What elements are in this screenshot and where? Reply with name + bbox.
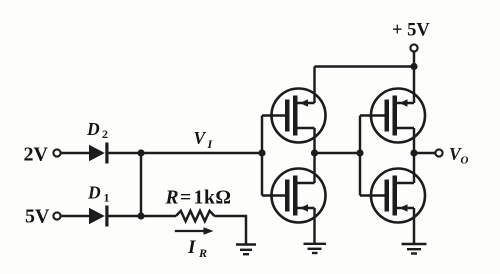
wire Q4 source to ground (413, 208, 415, 244)
node output 1 dot (311, 149, 318, 156)
current arrow IR (175, 227, 214, 235)
wire Q2 source to ground (313, 208, 315, 244)
transistor Q3 (PMOS, right) (371, 89, 425, 143)
transistor Q4 (NMOS, right) (371, 169, 425, 223)
wire 5V terminal to D1 anode (61, 215, 90, 217)
wire gate lead Q3 (360, 114, 387, 116)
svg-text:R=1kΩ: R=1kΩ (165, 188, 232, 209)
wire VDD rail down to Q1 source (313, 67, 315, 104)
wire D2 cathode to node A (109, 152, 142, 154)
ground (Q4 source) (402, 244, 427, 254)
svg-text:1: 1 (104, 191, 110, 205)
terminal VO output (435, 149, 442, 156)
gate bus 2 vertical (output 1 to gates of Q3,Q4) (359, 116, 361, 196)
wire gate lead Q1 (262, 114, 287, 116)
svg-text:R: R (198, 246, 207, 260)
svg-text:D: D (86, 119, 100, 139)
svg-text:O: O (461, 155, 469, 167)
resistor R1 zigzag (176, 211, 214, 221)
wire Q3 drain to output node 2 (413, 128, 415, 183)
wire gate lead Q2 (262, 194, 287, 196)
node A junction dot (diode D2 / VI) (137, 149, 144, 156)
label IR (187, 237, 207, 260)
wire 2V terminal to D2 anode (61, 152, 90, 154)
svg-text:2V: 2V (24, 144, 49, 166)
wire VDD rail horizontal (315, 65, 415, 67)
svg-text:V: V (194, 128, 207, 148)
label VI (194, 128, 214, 151)
ground (Q2 source) (304, 244, 327, 253)
wire output 2 to VO terminal (414, 152, 435, 154)
node B junction dot (diode D1 / resistor) (137, 212, 144, 219)
diode D1 (89, 206, 109, 227)
diode D2 (89, 143, 109, 164)
wire VI (node A to gate bus 1) (141, 152, 262, 154)
wire Q1 drain to output node 1 (313, 128, 315, 183)
svg-text:D: D (87, 183, 101, 203)
wire +5V terminal down to VDD node (413, 52, 415, 103)
node VDD junction dot (410, 63, 417, 70)
gate bus 1 vertical (VI to gates of Q1,Q2) (261, 116, 263, 196)
wire D1 cathode to node B (109, 215, 177, 217)
terminal 5V input (53, 212, 60, 219)
wire gate lead Q4 (360, 194, 387, 196)
transistor Q1 (PMOS, left) (272, 89, 326, 143)
svg-text:2: 2 (102, 127, 108, 141)
terminal 2V input (53, 149, 60, 156)
node gate bus 1 dot (258, 149, 265, 156)
node gate bus 2 dot (356, 149, 363, 156)
label D2 (86, 119, 108, 141)
svg-text:5V: 5V (25, 206, 50, 228)
terminal +5V supply (410, 44, 417, 51)
wire resistor to ground drop (214, 216, 246, 244)
label VO (449, 144, 469, 167)
ground (resistor) (236, 245, 256, 255)
svg-text:I: I (207, 137, 214, 151)
transistor Q2 (NMOS, left) (272, 169, 326, 223)
node output 2 dot (410, 149, 417, 156)
svg-text:+ 5V: + 5V (392, 21, 430, 41)
label D1 (87, 183, 110, 205)
svg-text:I: I (187, 237, 196, 258)
wire node A to node B (vertical tie) (140, 153, 142, 216)
wire output 1 to gate bus 2 (315, 152, 361, 154)
